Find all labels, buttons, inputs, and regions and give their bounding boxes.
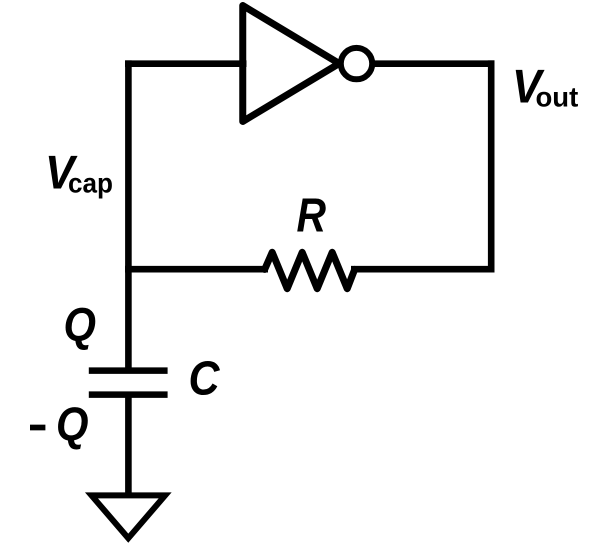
wire: middle horizontal left (node to resistor) — [125, 266, 268, 273]
capacitor C top plate — [89, 367, 168, 374]
svg-text:out: out — [536, 82, 579, 113]
wire: capacitor to ground — [125, 392, 132, 498]
wire: left vertical rail lower (node to capacitor) — [125, 266, 132, 371]
wire: inverter output to top-right corner — [371, 60, 495, 67]
svg-text:cap: cap — [68, 168, 113, 199]
inverter U1 (triangle) — [243, 6, 339, 122]
wire: inverter input (top-left horizontal) — [125, 60, 247, 67]
capacitor C bottom plate — [89, 391, 168, 398]
svg-text:R: R — [297, 190, 327, 243]
wire: left vertical rail upper (Vcap node to top corner) — [125, 60, 132, 272]
wire: right vertical rail (Vout) — [488, 60, 495, 272]
resistor R — [265, 252, 355, 288]
inverter U1 output bubble — [341, 48, 372, 79]
svg-text:Q: Q — [64, 298, 97, 351]
svg-text:C: C — [189, 352, 221, 406]
wire: middle horizontal right (resistor to right rail) — [351, 266, 495, 273]
ground — [92, 495, 166, 538]
svg-text:Q: Q — [56, 397, 89, 450]
label -Q (bottom plate charge) — [30, 425, 45, 431]
